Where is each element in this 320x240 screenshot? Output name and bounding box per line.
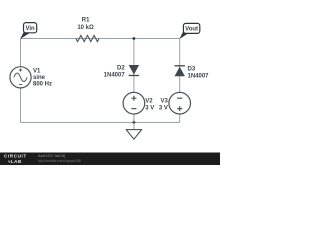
- wire right rail: [179, 39, 181, 123]
- svg-text:R1: R1: [82, 18, 90, 24]
- svg-text:sine: sine: [33, 75, 46, 81]
- node Vin flag: [20, 23, 37, 39]
- junction dot bottom: [133, 121, 136, 124]
- voltage source V3: [159, 92, 191, 114]
- watermark bar: [0, 153, 220, 166]
- svg-text:10 kΩ: 10 kΩ: [77, 25, 94, 31]
- svg-text:http://circuitlab.com/c/4ywqoc: http://circuitlab.com/c/4ywqoc/158f: [38, 159, 82, 163]
- wire middle branch: [133, 39, 135, 123]
- wire left rail: [20, 39, 22, 123]
- svg-text:D3: D3: [188, 66, 196, 72]
- diode D2 1N4007: [104, 65, 139, 79]
- svg-text:V2: V2: [145, 99, 153, 105]
- svg-text:Axel123 / lab7dj: Axel123 / lab7dj: [38, 153, 65, 158]
- svg-text:800 Hz: 800 Hz: [33, 81, 52, 87]
- svg-text:V1: V1: [33, 69, 41, 75]
- diode D3 1N4007: [175, 66, 210, 80]
- svg-text:Vout: Vout: [185, 27, 198, 33]
- svg-text:3 V: 3 V: [145, 105, 154, 111]
- wire bottom rail: [21, 122, 180, 124]
- svg-text:CIRCUIT: CIRCUIT: [4, 154, 27, 159]
- svg-text:V3: V3: [161, 99, 169, 105]
- svg-text:1N4007: 1N4007: [188, 74, 210, 80]
- ground: [126, 123, 141, 140]
- svg-text:D2: D2: [117, 65, 125, 71]
- voltage source V2: [123, 92, 154, 114]
- svg-text:≈LAB: ≈LAB: [8, 159, 22, 164]
- resistor R1: [76, 18, 99, 42]
- node Vout flag: [179, 23, 199, 39]
- junction dot top: [133, 37, 136, 40]
- svg-text:Vin: Vin: [25, 26, 35, 32]
- wire top rail: [21, 38, 180, 40]
- svg-text:3 V: 3 V: [159, 105, 168, 111]
- voltage source V1 sine: [10, 67, 52, 88]
- svg-text:1N4007: 1N4007: [104, 73, 126, 79]
